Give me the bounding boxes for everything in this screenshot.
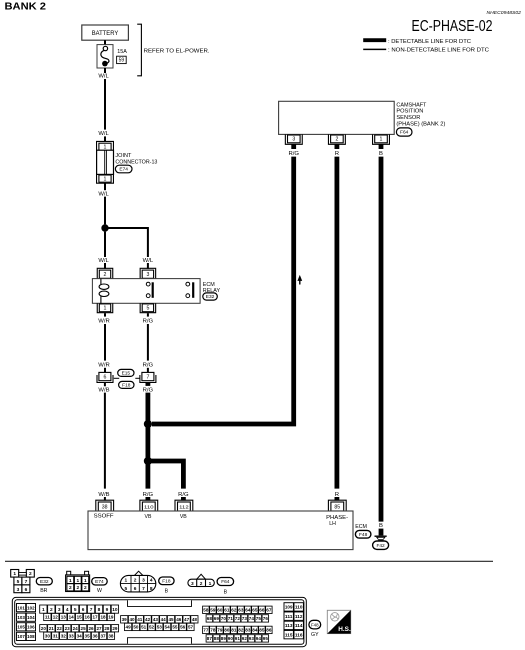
- svg-text:34: 34: [77, 633, 83, 638]
- svg-text:6: 6: [103, 374, 106, 380]
- svg-text:W/B: W/B: [98, 492, 109, 498]
- svg-text:53: 53: [157, 625, 163, 630]
- wire W/L joint connector to junction: [104, 197, 106, 225]
- svg-text:6: 6: [134, 586, 137, 592]
- svg-text:12: 12: [53, 615, 59, 620]
- svg-text:3: 3: [17, 587, 20, 593]
- svg-text:5: 5: [146, 306, 149, 312]
- svg-text:F18: F18: [122, 383, 131, 389]
- svg-text:BATTERY: BATTERY: [92, 30, 119, 37]
- fuse number 59: [117, 56, 127, 64]
- wire R/G stub below relay pin 5: [147, 313, 149, 316]
- svg-text:2: 2: [134, 578, 137, 584]
- svg-text:R: R: [335, 151, 339, 157]
- ECM pin label PHASE-LH: [326, 515, 348, 527]
- svg-text:2: 2: [69, 585, 72, 591]
- connector ref F42: [373, 541, 389, 549]
- svg-text:57: 57: [188, 625, 194, 630]
- svg-text:13: 13: [61, 615, 67, 620]
- ECM pin 85: [328, 500, 346, 511]
- svg-text:JOINT: JOINT: [115, 153, 132, 159]
- junction node R/G at phase sensor branch: [144, 420, 152, 428]
- svg-text:94: 94: [256, 636, 262, 641]
- connector ref F48 table: [309, 620, 321, 629]
- wire R/G connector 7 to ECM thick: [145, 393, 150, 489]
- separator line: [5, 560, 493, 562]
- connector ref F18 detail: [159, 577, 174, 585]
- connector detail E32: [11, 570, 35, 593]
- connector 7 E15/F18: [140, 372, 156, 382]
- wire B sensor pin 1 down: [379, 157, 384, 522]
- svg-text:REFER TO EL-POWER.: REFER TO EL-POWER.: [144, 48, 210, 54]
- svg-text:SSOFF: SSOFF: [94, 513, 114, 519]
- wire W/L branch to relay pin 3: [105, 228, 148, 257]
- svg-text:28: 28: [104, 626, 110, 631]
- ECM pin 112: [175, 500, 193, 511]
- svg-text:30: 30: [45, 633, 51, 638]
- junction node R/G at VB branch: [144, 457, 152, 465]
- svg-text:62: 62: [231, 607, 237, 612]
- dashed link ovals to connector 7: [135, 377, 139, 379]
- svg-text:9: 9: [106, 607, 109, 613]
- svg-text:110: 110: [295, 605, 303, 610]
- svg-text:48: 48: [192, 617, 198, 622]
- svg-text:1: 1: [69, 578, 72, 584]
- ECM table row 1-10: [40, 605, 119, 613]
- svg-text:92: 92: [242, 636, 248, 641]
- svg-text:2: 2: [104, 272, 107, 278]
- label camshaft position sensor: [396, 102, 445, 127]
- svg-text:B: B: [379, 523, 383, 529]
- dashed link connector 6 to ovals: [114, 377, 119, 379]
- svg-text:110: 110: [144, 504, 154, 509]
- svg-text:2: 2: [50, 607, 53, 613]
- sensor pin 2: [328, 134, 345, 144]
- wire R stub below sensor pin 2: [334, 144, 339, 149]
- svg-text:59: 59: [210, 607, 216, 612]
- svg-text:25: 25: [81, 626, 87, 631]
- svg-text:112: 112: [179, 504, 189, 509]
- sensor pin 1: [373, 134, 390, 144]
- svg-text:W/L: W/L: [98, 258, 109, 264]
- svg-text:22: 22: [57, 626, 63, 631]
- svg-text:2: 2: [335, 137, 338, 143]
- joint connector-13 pin 1 bottom: [97, 174, 114, 183]
- svg-text:81: 81: [231, 628, 237, 633]
- svg-text:63: 63: [238, 607, 244, 612]
- svg-text:10: 10: [112, 607, 118, 613]
- wire battery to fuse: [104, 40, 106, 44]
- ECM table row 58-67: [203, 606, 273, 613]
- svg-text:112: 112: [295, 614, 303, 619]
- svg-text:3: 3: [58, 607, 61, 613]
- svg-text:91: 91: [235, 636, 241, 641]
- svg-text:5: 5: [74, 607, 77, 613]
- ECM table row 20-29: [40, 625, 119, 632]
- svg-text:85: 85: [334, 504, 340, 510]
- svg-text:14: 14: [69, 615, 75, 620]
- svg-text:5: 5: [124, 586, 127, 592]
- svg-text:E32: E32: [40, 579, 49, 585]
- direction arrow on R/G wire: [297, 275, 302, 285]
- svg-text:90: 90: [228, 636, 234, 641]
- wire W/L stub below joint connector: [104, 183, 106, 190]
- label joint connector-13: [115, 153, 157, 165]
- svg-text:93: 93: [249, 636, 255, 641]
- svg-text:106: 106: [27, 625, 35, 630]
- wire R/G stub to connector 7: [147, 368, 149, 373]
- svg-text:44: 44: [161, 617, 167, 622]
- svg-text:B: B: [224, 589, 228, 595]
- legend detectable line sample: [363, 39, 471, 45]
- svg-text:1: 1: [76, 578, 79, 584]
- svg-text:B: B: [379, 151, 383, 157]
- svg-text:55: 55: [172, 625, 178, 630]
- connector ref E32 detail: [36, 578, 52, 585]
- ECM connector table inner border: [15, 600, 304, 645]
- svg-text:114: 114: [295, 623, 303, 628]
- connector 6 E15/F18: [97, 372, 113, 382]
- wire W/L stub below fuse: [104, 68, 106, 73]
- ECM table row 30-38: [44, 632, 115, 639]
- connector ref F48: [355, 530, 371, 538]
- svg-text:4: 4: [150, 578, 153, 584]
- svg-text:W/L: W/L: [98, 73, 109, 79]
- svg-text:115: 115: [285, 632, 293, 637]
- ECM relay E32 box: [92, 279, 200, 304]
- svg-text:F42: F42: [376, 543, 385, 549]
- svg-text:15A: 15A: [117, 49, 127, 55]
- svg-text:ECM: ECM: [355, 524, 367, 530]
- svg-text:107: 107: [17, 634, 25, 639]
- svg-text:VB: VB: [145, 514, 152, 520]
- svg-text:42: 42: [145, 617, 151, 622]
- svg-text:73: 73: [242, 616, 248, 621]
- svg-text:1: 1: [124, 578, 127, 584]
- svg-text:101: 101: [17, 605, 25, 610]
- svg-text:72: 72: [235, 616, 241, 621]
- svg-text:R/G: R/G: [143, 492, 154, 498]
- svg-text:GY: GY: [311, 632, 319, 638]
- svg-text:2: 2: [200, 581, 203, 587]
- svg-text:60: 60: [217, 607, 223, 612]
- svg-text:POSITION: POSITION: [396, 109, 423, 115]
- wire B stub below sensor pin 1: [379, 144, 384, 149]
- svg-text:116: 116: [295, 632, 303, 637]
- svg-text:24: 24: [73, 626, 79, 631]
- svg-text:7: 7: [90, 607, 93, 613]
- battery: [82, 25, 129, 40]
- svg-text:1: 1: [209, 581, 212, 587]
- svg-text:W/R: W/R: [98, 319, 109, 325]
- svg-text:43: 43: [153, 617, 159, 622]
- svg-text:33: 33: [69, 633, 75, 638]
- wire R/G sensor pin 3 down to junction: [152, 157, 294, 424]
- sensor pin 3: [285, 134, 302, 144]
- svg-text:65: 65: [252, 607, 258, 612]
- wire R stub to pin 85: [334, 497, 339, 501]
- svg-text:3: 3: [292, 137, 295, 143]
- svg-text:R/G: R/G: [143, 363, 154, 369]
- svg-text:29: 29: [112, 626, 118, 631]
- svg-text:78: 78: [210, 628, 216, 633]
- svg-text:40: 40: [129, 617, 135, 622]
- svg-text:104: 104: [27, 615, 35, 620]
- svg-text:2: 2: [84, 585, 87, 591]
- svg-text:F64: F64: [400, 130, 409, 136]
- svg-text:35: 35: [85, 633, 91, 638]
- svg-text:77: 77: [203, 628, 209, 633]
- svg-text:15: 15: [77, 615, 83, 620]
- svg-text:8: 8: [98, 607, 101, 613]
- svg-text:5: 5: [17, 579, 20, 585]
- connector ref E74 detail: [92, 578, 108, 585]
- svg-text:103: 103: [17, 615, 25, 620]
- wire R sensor pin 2 to ECM pin 85: [334, 157, 339, 489]
- svg-text:52: 52: [149, 625, 155, 630]
- svg-text:W/L: W/L: [98, 131, 109, 137]
- ECM pin 110: [140, 500, 158, 511]
- ECM table row 68-76: [206, 615, 269, 622]
- wire W/L fuse to joint connector: [104, 79, 106, 130]
- svg-text:: NON-DETECTABLE LINE FOR DTC: : NON-DETECTABLE LINE FOR DTC: [388, 48, 489, 54]
- svg-text:W: W: [97, 588, 102, 594]
- svg-text:56: 56: [180, 625, 186, 630]
- svg-text:7: 7: [146, 374, 149, 380]
- svg-text:84: 84: [252, 628, 258, 633]
- svg-text:23: 23: [65, 626, 71, 631]
- svg-text:21: 21: [49, 626, 55, 631]
- svg-text:74: 74: [249, 616, 255, 621]
- svg-text:B: B: [165, 589, 169, 595]
- svg-text:3: 3: [142, 578, 145, 584]
- svg-text:6: 6: [82, 607, 85, 613]
- relay contact pole 2: [186, 282, 193, 298]
- svg-text:102: 102: [27, 605, 35, 610]
- svg-text:46: 46: [176, 617, 182, 622]
- svg-text:83: 83: [245, 628, 251, 633]
- svg-text:2: 2: [76, 585, 79, 591]
- svg-text:86: 86: [266, 628, 272, 633]
- svg-text:70: 70: [221, 616, 227, 621]
- svg-text:80: 80: [224, 628, 230, 633]
- svg-text:45: 45: [168, 617, 174, 622]
- svg-text:EC-PHASE-02: EC-PHASE-02: [412, 18, 493, 35]
- wire W/L stub to relay pin 2: [104, 263, 106, 269]
- svg-text:109: 109: [285, 605, 293, 610]
- svg-text:3: 3: [146, 272, 149, 278]
- svg-text:64: 64: [245, 607, 251, 612]
- svg-text:31: 31: [53, 633, 59, 638]
- svg-text:58: 58: [203, 607, 209, 612]
- label ECM RELAY: [203, 282, 221, 294]
- svg-text:1: 1: [13, 571, 16, 577]
- svg-text:1: 1: [84, 578, 87, 584]
- ECM table row 39-48: [121, 616, 198, 623]
- svg-text:1: 1: [42, 607, 45, 613]
- svg-text:7: 7: [142, 586, 145, 592]
- connector detail E74: [66, 571, 90, 591]
- legend non-detectable line sample: [363, 48, 489, 54]
- wire W/L junction down to relay pin 2: [104, 232, 106, 257]
- svg-text:R/G: R/G: [143, 387, 154, 393]
- camshaft position sensor box: [279, 101, 395, 134]
- svg-text:111: 111: [285, 614, 293, 619]
- svg-text:20: 20: [41, 626, 47, 631]
- svg-text:79: 79: [217, 628, 223, 633]
- wire B stub to F42: [379, 529, 384, 536]
- svg-text:51: 51: [141, 625, 147, 630]
- svg-text:38: 38: [108, 633, 114, 638]
- wire W/B stub below connector 6: [104, 383, 106, 386]
- svg-text:49: 49: [126, 625, 132, 630]
- ECM connector table outer border: [12, 597, 306, 646]
- svg-text:39: 39: [122, 617, 128, 622]
- bracket refer to el-power: [137, 24, 141, 76]
- relay pin 3: [140, 268, 156, 278]
- wire W/B stub to pin 38: [104, 497, 106, 501]
- svg-text:69: 69: [214, 616, 220, 621]
- connector ref F18: [119, 381, 134, 388]
- svg-text:BANK 2: BANK 2: [5, 2, 47, 13]
- wire R/G relay to connector 7: [147, 324, 149, 361]
- svg-text:113: 113: [285, 623, 293, 628]
- wire W/R stub below relay pin 1: [104, 313, 106, 316]
- ECM connector table bottom notch: [128, 638, 192, 644]
- connector ref E15: [118, 369, 134, 376]
- svg-text:105: 105: [17, 625, 25, 630]
- svg-text:F18: F18: [162, 579, 171, 585]
- relay coil: [99, 279, 109, 304]
- wire W/B connector 6 to ECM: [104, 393, 106, 489]
- svg-text:W/L: W/L: [98, 192, 109, 198]
- svg-text:F64: F64: [221, 579, 230, 585]
- svg-text:2: 2: [29, 571, 32, 577]
- fuse 15A: [97, 45, 113, 68]
- svg-text:R/G: R/G: [143, 319, 154, 325]
- svg-text:37: 37: [100, 633, 106, 638]
- svg-text:CAMSHAFT: CAMSHAFT: [396, 102, 427, 108]
- ECM table row 49-57: [125, 623, 195, 630]
- svg-text:54: 54: [165, 625, 171, 630]
- svg-text:67: 67: [266, 607, 272, 612]
- connector detail F18: [120, 571, 155, 592]
- ECM table block 101-108: [17, 604, 36, 641]
- connector detail F64: [188, 574, 214, 587]
- ECM table block 109-116: [284, 603, 303, 639]
- relay pin 5: [140, 303, 156, 312]
- svg-text:32: 32: [61, 633, 67, 638]
- svg-text:8: 8: [150, 586, 153, 592]
- relay pin 1: [97, 303, 113, 312]
- svg-text:61: 61: [224, 607, 230, 612]
- ECM table row 11-19: [44, 613, 115, 620]
- svg-text:E74: E74: [119, 167, 128, 173]
- junction node W/L split: [101, 224, 108, 231]
- ECM table row 77-86: [203, 626, 273, 633]
- ECM table row 87-95: [206, 635, 269, 642]
- wire W/L stub to relay pin 3: [147, 263, 149, 269]
- ECM pin 38: [96, 500, 114, 511]
- svg-text:108: 108: [27, 634, 35, 639]
- svg-text:E74: E74: [95, 579, 104, 585]
- svg-text:17: 17: [92, 615, 98, 620]
- svg-text:W/L: W/L: [143, 258, 154, 264]
- wire R/G stub to pin 112: [181, 497, 186, 501]
- svg-text:68: 68: [207, 616, 213, 621]
- wire R/G branch to pin 112: [148, 461, 184, 489]
- svg-text:W/B: W/B: [98, 387, 109, 393]
- svg-text:W/R: W/R: [98, 363, 109, 369]
- svg-text:R: R: [335, 492, 339, 498]
- svg-text:NHEC0948S02: NHEC0948S02: [487, 10, 522, 15]
- svg-text:4: 4: [66, 607, 69, 613]
- svg-text:18: 18: [100, 615, 106, 620]
- wire R/G connector 7 stub: [145, 383, 150, 386]
- wire W/R stub to connector 6: [104, 368, 106, 373]
- relay contact pole 1: [146, 282, 152, 298]
- svg-text:27: 27: [96, 626, 102, 631]
- svg-text:47: 47: [184, 617, 190, 622]
- ECM connector table top notch: [128, 600, 192, 606]
- connector ref E32: [203, 293, 218, 300]
- svg-text:89: 89: [221, 636, 227, 641]
- H.S. logo: [327, 610, 351, 633]
- svg-text:SENSOR: SENSOR: [396, 115, 420, 121]
- svg-text:VB: VB: [180, 514, 187, 520]
- svg-text:LH: LH: [329, 521, 336, 527]
- svg-text:F48: F48: [359, 532, 368, 538]
- svg-text:R/G: R/G: [178, 492, 189, 498]
- svg-text:38: 38: [102, 504, 108, 510]
- svg-text:6: 6: [25, 587, 28, 593]
- svg-text:E15: E15: [122, 371, 131, 377]
- svg-text:1: 1: [380, 137, 383, 143]
- svg-text:19: 19: [108, 615, 114, 620]
- joint connector-13 pin 1 top: [97, 141, 114, 150]
- ECM box: [88, 511, 353, 550]
- svg-text:BR: BR: [40, 588, 47, 594]
- connector ref F64 detail: [217, 578, 234, 586]
- connector symbol to F42: [375, 536, 387, 540]
- svg-text:1: 1: [104, 306, 107, 312]
- wire R/G stub to pin 110: [145, 497, 150, 501]
- svg-text:41: 41: [137, 617, 143, 622]
- wire W/R relay to connector 6: [104, 324, 106, 361]
- wire W/L into joint connector: [104, 136, 106, 142]
- svg-text:88: 88: [214, 636, 220, 641]
- svg-text:(PHASE) (BANK 2): (PHASE) (BANK 2): [396, 121, 445, 127]
- svg-text:85: 85: [259, 628, 265, 633]
- svg-text:11: 11: [45, 615, 50, 620]
- joint connector-13 body: [97, 150, 114, 174]
- svg-text:3: 3: [191, 581, 194, 587]
- connector ref E74: [115, 165, 132, 173]
- svg-text:ECM: ECM: [203, 282, 215, 288]
- svg-text:95: 95: [263, 636, 269, 641]
- svg-text:66: 66: [259, 607, 265, 612]
- svg-text:82: 82: [238, 628, 244, 633]
- svg-text:50: 50: [133, 625, 139, 630]
- svg-text:76: 76: [263, 616, 269, 621]
- svg-text:26: 26: [88, 626, 94, 631]
- svg-text:1: 1: [104, 176, 107, 182]
- svg-text:R/G: R/G: [288, 151, 299, 157]
- connector ref F64: [396, 128, 412, 136]
- svg-text:7: 7: [25, 579, 28, 585]
- wire R/G stub below sensor pin 3: [291, 144, 296, 149]
- svg-text:H.S.: H.S.: [338, 627, 351, 633]
